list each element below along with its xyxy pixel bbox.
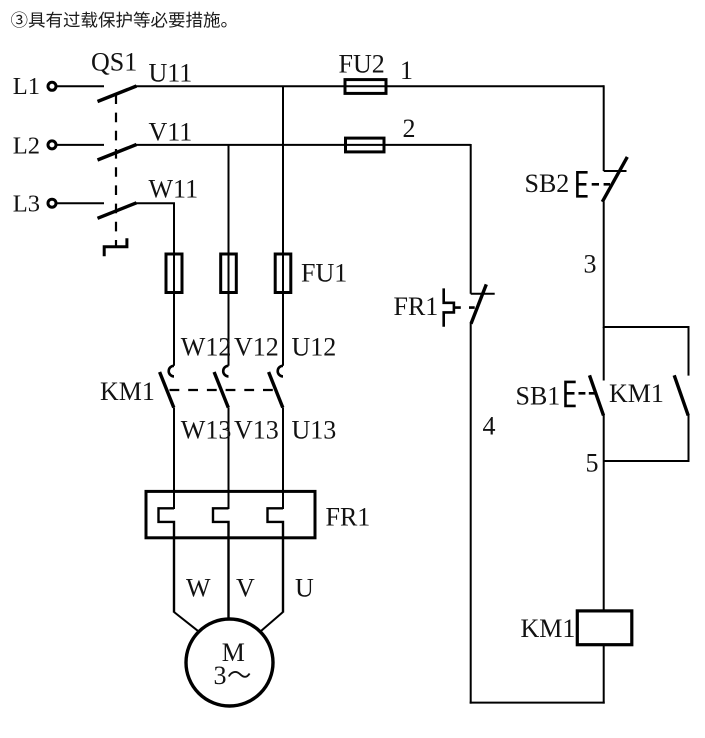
svg-text:U13: U13 bbox=[292, 416, 337, 445]
wire L3 to QS1 bbox=[57, 202, 105, 204]
svg-text:L1: L1 bbox=[13, 73, 40, 100]
contactor KM1 main contact U arc bbox=[278, 366, 283, 377]
svg-text:QS1: QS1 bbox=[91, 48, 137, 77]
FR1 heater element U bbox=[268, 508, 284, 612]
svg-text:V12: V12 bbox=[234, 333, 279, 362]
svg-text:SB1: SB1 bbox=[516, 381, 561, 410]
wire L2 to QS1 bbox=[57, 144, 105, 146]
svg-text:W13: W13 bbox=[181, 416, 232, 445]
pushbutton SB1 actuator bbox=[566, 382, 576, 406]
fuse FU1 phase W bbox=[166, 254, 182, 293]
pushbutton SB1 link dashes bbox=[579, 392, 596, 395]
FR1 heater element W bbox=[159, 508, 175, 612]
svg-text:4: 4 bbox=[483, 411, 496, 440]
wire 3 SB2 to branch junction bbox=[603, 201, 605, 328]
wire node V-drop junction bbox=[228, 145, 230, 366]
pushbutton SB2 stop bar bbox=[604, 170, 627, 172]
wire U to motor bbox=[260, 612, 283, 632]
FR1 heater element V bbox=[213, 508, 229, 619]
wire 3 to SB1 bbox=[603, 327, 605, 381]
wire V13 KM1 to FR1 box bbox=[228, 408, 230, 509]
relay contact FR1 stop bar bbox=[471, 293, 495, 295]
wire node U-drop junction bbox=[282, 86, 284, 365]
switch QS1 pole 3 bbox=[98, 203, 137, 219]
svg-text:L2: L2 bbox=[13, 132, 40, 159]
wire branch to KM1 aux bbox=[604, 327, 689, 376]
wire 1 right side down to SB2 bbox=[603, 85, 605, 171]
wire W13 KM1 to FR1 box bbox=[173, 408, 175, 509]
fuse FU2 upper bbox=[345, 80, 386, 94]
relay contact FR1 blade bbox=[471, 284, 486, 323]
motor M circle bbox=[186, 619, 273, 706]
wire V11 (L2 row to right) bbox=[134, 144, 471, 146]
QS1 linkage dashed line bbox=[115, 94, 117, 246]
contactor KM1 main contact W blade bbox=[160, 372, 174, 408]
svg-text:1: 1 bbox=[400, 56, 413, 85]
wire 4 FR1 contact down to bottom rail bbox=[470, 323, 472, 703]
svg-text:FU2: FU2 bbox=[339, 50, 385, 79]
svg-text:W12: W12 bbox=[181, 333, 232, 362]
fuse FU2 lower bbox=[346, 138, 385, 152]
wire bottom rail bbox=[470, 702, 605, 704]
pushbutton SB2 link dashes bbox=[592, 183, 610, 186]
contactor KM1 main contact U blade bbox=[269, 372, 283, 408]
svg-text:U11: U11 bbox=[149, 58, 193, 87]
wire W11 (L3 row to corner) bbox=[134, 203, 174, 366]
contact KM1 aux blade bbox=[674, 375, 688, 415]
svg-text:L3: L3 bbox=[13, 191, 40, 218]
svg-text:KM1: KM1 bbox=[521, 614, 576, 643]
relay contact FR1 link dashes bbox=[454, 306, 475, 309]
pushbutton SB2 blade bbox=[602, 157, 627, 202]
svg-text:3: 3 bbox=[214, 661, 227, 690]
svg-text:KM1: KM1 bbox=[609, 379, 664, 408]
svg-text:U12: U12 bbox=[292, 333, 337, 362]
coil KM1 bbox=[577, 611, 632, 645]
wire 5 SB1 down to coil bbox=[603, 415, 605, 611]
fuse FU1 phase U bbox=[275, 254, 291, 293]
svg-text:FR1: FR1 bbox=[326, 503, 371, 532]
svg-text:3: 3 bbox=[584, 249, 597, 278]
svg-text:W: W bbox=[186, 574, 211, 603]
contactor KM1 main contact V blade bbox=[214, 372, 228, 408]
pushbutton SB2 actuator bbox=[577, 172, 587, 196]
wire coil to bottom rail bbox=[603, 645, 605, 704]
wire U11 (L1 row to right) bbox=[134, 85, 604, 87]
svg-text:FU1: FU1 bbox=[301, 259, 347, 288]
wire L1 to QS1 bbox=[57, 85, 105, 87]
terminal L1 bbox=[48, 82, 56, 90]
wire U13 KM1 to FR1 box bbox=[282, 408, 284, 509]
wire 2 corner down to FR1 contact bbox=[470, 144, 472, 294]
terminal L2 bbox=[48, 141, 56, 149]
svg-text:V13: V13 bbox=[234, 416, 279, 445]
svg-text:FR1: FR1 bbox=[394, 292, 439, 321]
svg-text:U: U bbox=[295, 574, 314, 603]
KM1 main contacts linkage dashed line bbox=[170, 389, 278, 391]
pushbutton SB1 blade bbox=[590, 375, 604, 415]
svg-text:SB2: SB2 bbox=[525, 169, 570, 198]
switch QS1 pole 2 bbox=[98, 145, 137, 161]
title text 具有过载保护等必要措施 bbox=[11, 11, 226, 27]
switch QS1 pole 1 bbox=[98, 86, 137, 102]
fuse FU1 phase V bbox=[221, 254, 237, 293]
QS1 handle bbox=[104, 238, 127, 256]
svg-text:KM1: KM1 bbox=[100, 377, 155, 406]
wire KM1 aux to junction 5 bbox=[604, 415, 689, 461]
relay contact FR1 actuator bbox=[444, 288, 454, 326]
svg-text:2: 2 bbox=[403, 114, 416, 143]
terminal L3 bbox=[48, 199, 56, 207]
contactor KM1 main contact W arc bbox=[169, 366, 174, 377]
wire W to motor bbox=[174, 612, 199, 632]
svg-text:W11: W11 bbox=[149, 175, 199, 204]
thermal relay FR1 heater box bbox=[146, 491, 315, 537]
svg-text:V: V bbox=[236, 574, 255, 603]
svg-text:5: 5 bbox=[586, 449, 599, 478]
svg-text:V11: V11 bbox=[149, 117, 193, 146]
contactor KM1 main contact V arc bbox=[223, 366, 228, 377]
